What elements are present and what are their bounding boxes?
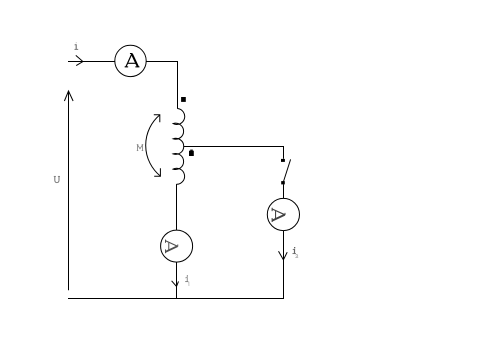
M arrowhead top — [154, 115, 160, 123]
label i2 — [293, 247, 299, 257]
arrow i1 direction — [172, 281, 179, 287]
mutual coupling arc M — [146, 115, 161, 176]
arrow input current i — [76, 55, 83, 65]
bottom wire — [68, 298, 284, 300]
label U — [54, 176, 60, 182]
wire A2 to bottom — [176, 262, 178, 299]
switch blade — [283, 159, 290, 182]
inductor L with tap — [173, 109, 185, 185]
wire input top — [68, 61, 115, 63]
ammeter A2 (lower left) — [161, 230, 193, 262]
polarity dot top — [181, 97, 186, 102]
switch lower contact — [281, 181, 285, 184]
arrow i2 direction — [279, 251, 288, 260]
ammeter A1 (top) — [115, 45, 146, 76]
wire A3 to bottom — [283, 231, 285, 299]
polarity dot tap — [189, 151, 194, 156]
label M — [137, 145, 143, 151]
wire tap to switch — [183, 147, 283, 159]
ammeter A3 (right) — [267, 198, 299, 230]
wire A1 to top-right corner — [146, 62, 177, 109]
M arrowhead bottom — [154, 168, 160, 176]
switch upper contact — [281, 159, 285, 162]
wire coil to A2 — [176, 184, 178, 230]
label i1 — [185, 275, 189, 285]
voltage arrow U — [68, 91, 70, 290]
label i — [75, 42, 79, 49]
wire switch to A3 — [283, 184, 285, 198]
